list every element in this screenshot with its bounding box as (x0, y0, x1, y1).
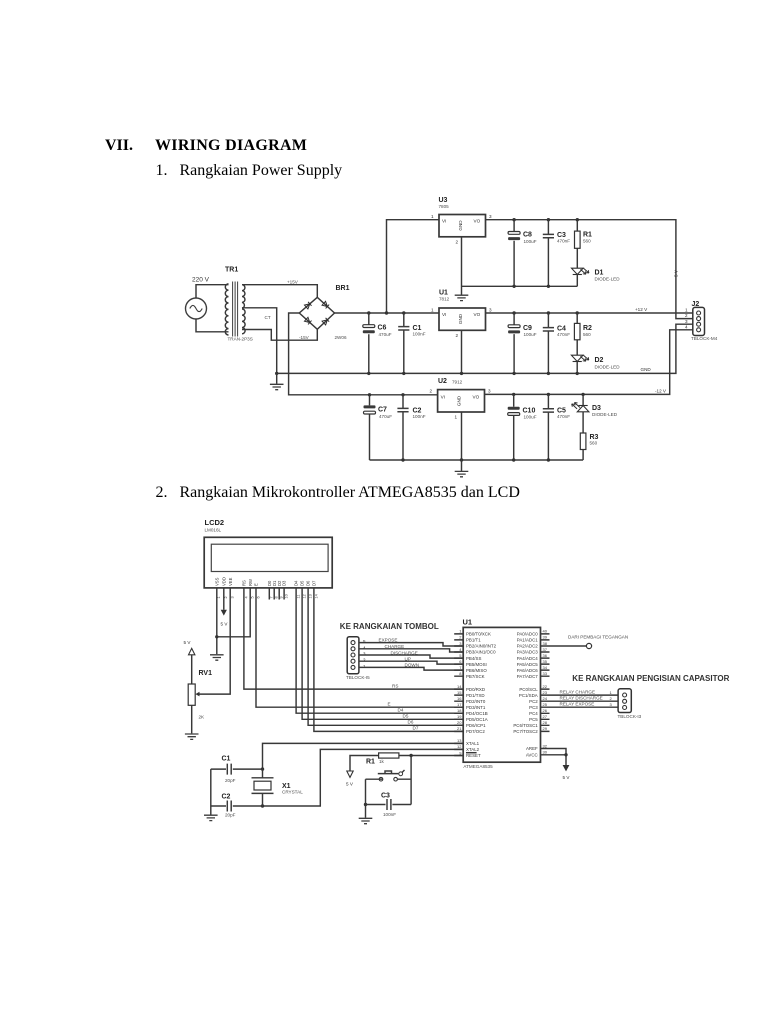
svg-text:PC7/TOSC2: PC7/TOSC2 (513, 729, 538, 734)
svg-text:VO: VO (473, 395, 480, 400)
junction RESET node (409, 754, 412, 757)
node DARI PEMBAGI TEGANGAN on PA2 (550, 635, 629, 649)
svg-text:2: 2 (224, 596, 228, 598)
svg-text:220 V: 220 V (192, 277, 210, 284)
wire button left to ground (365, 779, 367, 818)
svg-text:470uF: 470uF (379, 414, 392, 419)
svg-text:D7: D7 (312, 580, 317, 586)
svg-text:22: 22 (543, 684, 548, 689)
svg-text:RESET: RESET (466, 753, 481, 758)
svg-text:ATMEGA8535: ATMEGA8535 (463, 764, 493, 769)
svg-text:DOWN: DOWN (405, 663, 420, 668)
svg-text:39: 39 (543, 635, 548, 640)
junction crystal top (261, 767, 264, 770)
svg-text:D3: D3 (282, 580, 287, 586)
svg-text:1k: 1k (379, 759, 385, 764)
wire AREF AVCC to 5V (550, 749, 568, 766)
wire RW to VSS ground node (217, 600, 250, 637)
svg-text:PC3: PC3 (529, 705, 538, 710)
svg-text:PD4/OC1B: PD4/OC1B (466, 711, 488, 716)
svg-text:470nF: 470nF (557, 239, 570, 244)
capacitor C8 (508, 220, 537, 287)
svg-text:14: 14 (314, 594, 318, 598)
svg-text:D5: D5 (300, 580, 305, 586)
node dots -12V ground return (401, 458, 550, 461)
svg-text:CHARGE: CHARGE (385, 644, 405, 649)
svg-text:PC6/TOSC1: PC6/TOSC1 (513, 723, 538, 728)
svg-text:3: 3 (459, 641, 462, 646)
svg-text:C6: C6 (378, 325, 387, 332)
svg-text:D4: D4 (294, 580, 299, 586)
svg-text:34: 34 (543, 665, 548, 670)
svg-text:DIODE-LED: DIODE-LED (592, 412, 618, 417)
svg-text:5 V: 5 V (184, 640, 192, 645)
svg-text:PC5: PC5 (529, 717, 538, 722)
junction crystal bottom (261, 804, 264, 807)
svg-text:EXPOSE: EXPOSE (379, 638, 398, 643)
svg-text:DARI PEMBAGI TEGANGAN: DARI PEMBAGI TEGANGAN (568, 635, 628, 640)
svg-text:15: 15 (457, 690, 462, 695)
potentiometer RV1 (188, 670, 212, 733)
ground below centre tap (270, 373, 284, 389)
capacitor C4 (543, 313, 570, 373)
svg-text:PA6/ADC6: PA6/ADC6 (517, 668, 538, 673)
wire tombol UP (359, 656, 463, 664)
svg-text:35: 35 (543, 659, 548, 664)
ground below U2 (455, 471, 469, 476)
svg-text:PB5/MOSI: PB5/MOSI (466, 662, 487, 667)
ground rail to J2 pin3 (277, 324, 693, 373)
svg-text:100nF: 100nF (383, 812, 396, 817)
svg-text:R1: R1 (366, 759, 375, 766)
svg-text:+15V: +15V (287, 280, 299, 285)
svg-text:GND: GND (457, 395, 462, 406)
svg-text:LCD2: LCD2 (205, 518, 225, 527)
svg-text:PB3/AIN1/OC0: PB3/AIN1/OC0 (466, 650, 496, 655)
wire RESET net (350, 756, 463, 771)
svg-text:1: 1 (455, 415, 458, 420)
svg-text:RW: RW (248, 579, 253, 586)
svg-text:BR1: BR1 (336, 285, 350, 292)
svg-text:20pF: 20pF (225, 813, 236, 818)
svg-text:18: 18 (457, 708, 462, 713)
node dots -12V rail (368, 393, 585, 397)
svg-text:9: 9 (459, 750, 462, 755)
wire C1 C2 common to ground (210, 769, 212, 815)
svg-text:14: 14 (457, 684, 462, 689)
junction C3 left (364, 803, 367, 806)
capacitor C5 (543, 394, 570, 460)
svg-text:4: 4 (363, 645, 366, 650)
label KE RANGKAIAN TOMBOL (340, 622, 439, 631)
wire RELAY DISCHARGE (550, 696, 619, 702)
capacitor C3 (366, 793, 412, 818)
node dots 5V rail (512, 218, 579, 221)
svg-text:13: 13 (457, 738, 462, 743)
wire U3 GND pin (461, 237, 463, 295)
wire LCD E to ATMEGA (256, 600, 463, 708)
ground below VSS (210, 655, 224, 660)
svg-text:1: 1 (610, 690, 613, 695)
heading 1. Rangkaian Power Supply (156, 162, 343, 180)
svg-text:D6: D6 (408, 720, 414, 725)
svg-text:PB6/MISO: PB6/MISO (466, 668, 487, 673)
svg-text:TBLOCK-I3: TBLOCK-I3 (618, 714, 642, 719)
svg-text:40: 40 (543, 629, 548, 634)
pushbutton reset (366, 770, 412, 781)
svg-text:17: 17 (457, 702, 462, 707)
svg-text:29: 29 (543, 726, 548, 731)
svg-text:PD2/INT0: PD2/INT0 (466, 699, 486, 704)
wire 5V section ground return (462, 285, 578, 287)
schematic 2 : microcontroller + LCD (180, 510, 735, 840)
node dots 5V ground return (512, 285, 550, 288)
wire centre tap to ground (242, 308, 277, 374)
svg-text:28: 28 (543, 720, 548, 725)
wire secondary -15V to bridge (242, 329, 317, 340)
svg-text:GND: GND (641, 367, 652, 372)
wire secondary +15V to bridge (242, 280, 317, 298)
wire AC to transformer (196, 285, 229, 332)
wire XTAL1 to crystal (263, 743, 464, 769)
capacitor C9 (508, 313, 537, 373)
svg-text:E: E (388, 701, 391, 706)
svg-text:VEE: VEE (228, 577, 233, 586)
svg-text:100uF: 100uF (524, 415, 537, 420)
ground below RV1 (185, 734, 199, 739)
wire LCD D4 to ATMEGA (296, 600, 463, 714)
svg-text:2: 2 (456, 333, 459, 338)
svg-text:XTAL1: XTAL1 (466, 741, 480, 746)
svg-text:2: 2 (456, 240, 459, 245)
svg-text:VI: VI (441, 395, 445, 400)
svg-text:VSS: VSS (214, 577, 219, 586)
bridge rectifier BR1 (299, 285, 349, 340)
svg-text:CT: CT (265, 315, 271, 320)
svg-text:GND: GND (458, 220, 463, 231)
svg-text:9: 9 (280, 596, 284, 598)
transformer TR1 (225, 267, 271, 342)
svg-text:KE RANGKAIAN PENGISIAN CAPASIT: KE RANGKAIAN PENGISIAN CAPASITOR (572, 674, 729, 683)
svg-text:PD5/OC1A: PD5/OC1A (466, 717, 488, 722)
svg-text:RV1: RV1 (199, 670, 213, 677)
svg-text:3: 3 (231, 596, 235, 598)
crystal X1 (252, 769, 304, 806)
capacitor C3 (543, 220, 570, 287)
svg-text:PA7/ADC7: PA7/ADC7 (517, 674, 538, 679)
svg-text:3: 3 (489, 308, 492, 313)
svg-text:-12 V: -12 V (655, 389, 667, 394)
svg-text:24: 24 (543, 696, 548, 701)
svg-text:PC1/SDA: PC1/SDA (519, 693, 538, 698)
svg-text:5: 5 (251, 596, 255, 598)
svg-text:6: 6 (256, 596, 260, 598)
svg-text:CRYSTAL: CRYSTAL (282, 790, 303, 795)
capacitor C2 (397, 395, 425, 460)
svg-text:PD6/ICP1: PD6/ICP1 (466, 723, 486, 728)
svg-text:2: 2 (459, 635, 462, 640)
capacitor C2 (211, 794, 263, 818)
svg-text:TBLOCK-I5: TBLOCK-I5 (346, 675, 370, 680)
svg-text:PB1/T1: PB1/T1 (466, 638, 481, 643)
svg-text:PA0/ADC0: PA0/ADC0 (517, 632, 538, 637)
svg-text:C3: C3 (381, 793, 390, 800)
svg-text:TRAN-2P3S: TRAN-2P3S (228, 337, 253, 342)
svg-text:XTAL2: XTAL2 (466, 747, 480, 752)
resistor R3 (580, 412, 598, 460)
svg-text:12: 12 (457, 744, 462, 749)
svg-text:RS: RS (242, 580, 247, 586)
svg-text:30: 30 (543, 750, 548, 755)
svg-text:AREF: AREF (526, 746, 538, 751)
heading VII. WIRING DIAGRAM (105, 137, 133, 155)
svg-text:DIODE-LED: DIODE-LED (595, 277, 621, 282)
wire VEE to RV1 wiper (195, 600, 230, 697)
capacitor C6 (363, 313, 392, 373)
AC source 220V (186, 277, 210, 320)
svg-text:DIODE-LED: DIODE-LED (595, 365, 621, 370)
wire -12V section ground return (370, 459, 584, 461)
svg-text:470nF: 470nF (557, 332, 570, 337)
svg-text:C10: C10 (523, 408, 536, 415)
wire RELAY EXPOSE (550, 702, 619, 708)
power 5V arrow at R1 (346, 771, 354, 787)
svg-text:5: 5 (459, 653, 462, 658)
svg-text:2W06: 2W06 (335, 335, 347, 340)
svg-text:33: 33 (543, 671, 548, 676)
svg-text:38: 38 (543, 641, 548, 646)
svg-text:2: 2 (363, 658, 366, 663)
schematic 1 : power supply (180, 185, 725, 485)
svg-text:+12 V: +12 V (635, 307, 648, 312)
svg-text:2: 2 (685, 313, 688, 318)
svg-text:VO: VO (474, 312, 481, 317)
svg-text:PB4/SS: PB4/SS (466, 656, 481, 661)
regulator U1 7812 (431, 290, 492, 339)
svg-text:RS: RS (392, 683, 398, 688)
wire VSS to ground (216, 600, 218, 655)
svg-text:U1: U1 (439, 290, 448, 297)
svg-text:100nF: 100nF (413, 332, 426, 337)
svg-text:100nF: 100nF (413, 414, 426, 419)
wire U1 GND pin (461, 330, 463, 373)
resistor R2 (574, 313, 592, 355)
svg-text:8: 8 (459, 671, 462, 676)
svg-text:26: 26 (543, 708, 548, 713)
svg-text:PA5/ADC5: PA5/ADC5 (517, 662, 538, 667)
label KE RANGKAIAN PENGISIAN CAPASITOR (572, 674, 729, 683)
svg-text:D6: D6 (306, 580, 311, 586)
svg-text:D7: D7 (413, 726, 419, 731)
svg-text:PC2: PC2 (529, 699, 538, 704)
wire tombol EXPOSE (359, 638, 463, 646)
svg-text:PC0/SCL: PC0/SCL (519, 687, 538, 692)
wire XTAL2 to crystal (263, 749, 464, 806)
svg-text:1: 1 (685, 308, 688, 313)
svg-text:560: 560 (583, 239, 591, 244)
heading 2. Rangkaian Mikrokontroller ATMEGA8535 dan LCD (156, 484, 520, 502)
svg-text:470nF: 470nF (557, 414, 570, 419)
wire tombol CHARGE (359, 644, 463, 652)
wire U2 output -12V rail to J2 pin4 (485, 330, 693, 395)
svg-text:PA1/ADC1: PA1/ADC1 (517, 638, 538, 643)
svg-text:1: 1 (431, 308, 434, 313)
svg-text:6: 6 (459, 659, 462, 664)
svg-text:C2: C2 (222, 794, 231, 801)
junction VSS/RW (215, 635, 218, 638)
svg-text:23: 23 (543, 690, 548, 695)
ground below U3 (455, 295, 469, 300)
svg-text:D1: D1 (595, 270, 604, 277)
svg-text:R2: R2 (583, 325, 592, 332)
svg-text:-15V: -15V (299, 335, 310, 340)
svg-text:5 V: 5 V (221, 622, 229, 627)
wire bridge negative to U2 input (289, 313, 438, 395)
resistor R1 (575, 220, 593, 269)
svg-text:TR1: TR1 (225, 267, 238, 274)
svg-text:1: 1 (459, 629, 462, 634)
svg-text:4: 4 (459, 647, 462, 652)
svg-text:36: 36 (543, 653, 548, 658)
svg-text:3: 3 (363, 652, 366, 657)
svg-text:32: 32 (543, 743, 548, 748)
svg-text:12: 12 (303, 594, 307, 598)
svg-text:C1: C1 (222, 756, 231, 763)
svg-text:13: 13 (309, 594, 313, 598)
microcontroller U1 ATMEGA8535 (454, 618, 549, 770)
svg-text:PA2/ADC2: PA2/ADC2 (517, 644, 538, 649)
svg-text:20pF: 20pF (225, 778, 236, 783)
wire bridge positive rail (335, 312, 440, 314)
svg-text:2K: 2K (199, 715, 206, 720)
connector J2 (685, 301, 718, 341)
svg-text:PD1/TXD: PD1/TXD (466, 693, 485, 698)
LED D3 (572, 394, 618, 417)
svg-text:4: 4 (244, 596, 248, 598)
wire U2 GND pin (461, 412, 463, 471)
svg-text:VDD: VDD (221, 577, 226, 586)
svg-text:7805: 7805 (439, 204, 450, 209)
power 5V arrow at AVCC (563, 765, 571, 780)
wire U3 output 5V rail to J2 pin2 (486, 220, 693, 319)
svg-text:7912: 7912 (452, 380, 463, 385)
svg-text:4: 4 (685, 324, 688, 329)
svg-text:VI: VI (442, 312, 446, 317)
svg-text:21: 21 (457, 726, 462, 731)
svg-text:GND: GND (458, 313, 463, 324)
svg-text:PD7/OC2: PD7/OC2 (466, 729, 485, 734)
LED D1 (572, 268, 621, 286)
svg-text:PD0/RXD: PD0/RXD (466, 687, 485, 692)
svg-text:D5: D5 (403, 714, 409, 719)
LED D2 (571, 355, 620, 373)
svg-text:AVCC: AVCC (526, 753, 538, 758)
capacitor C10 (508, 394, 537, 460)
svg-text:11: 11 (297, 595, 301, 599)
svg-text:8: 8 (275, 596, 279, 598)
svg-text:1: 1 (431, 214, 434, 219)
svg-text:LM016L: LM016L (205, 528, 222, 533)
svg-text:VI: VI (442, 219, 446, 224)
svg-text:PB7/SCK: PB7/SCK (466, 674, 485, 679)
wire LCD D5 to ATMEGA (302, 600, 463, 720)
svg-text:3: 3 (685, 319, 688, 324)
svg-text:PA3/ADC3: PA3/ADC3 (517, 650, 538, 655)
svg-text:10: 10 (285, 594, 289, 598)
svg-text:5 V: 5 V (346, 782, 354, 787)
svg-text:U2: U2 (438, 378, 447, 385)
svg-text:PB2/AIN0/INT2: PB2/AIN0/INT2 (466, 644, 497, 649)
wire RELAY CHARGE (550, 690, 619, 696)
LCD display LCD2 LM016L (204, 518, 332, 588)
svg-text:PD3/INT1: PD3/INT1 (466, 705, 486, 710)
net label 5V (674, 269, 679, 277)
svg-text:C8: C8 (523, 232, 532, 239)
capacitor C1 (211, 756, 263, 784)
svg-text:2: 2 (430, 389, 433, 394)
connector TBLOCK-I3 (618, 689, 642, 719)
svg-text:1: 1 (217, 596, 221, 598)
svg-text:RELAY CHARGE: RELAY CHARGE (560, 690, 596, 695)
svg-text:RELAY EXPOSE: RELAY EXPOSE (560, 702, 595, 707)
svg-text:D2: D2 (595, 357, 604, 364)
svg-text:3: 3 (488, 389, 491, 394)
capacitor C7 (364, 395, 393, 460)
svg-text:37: 37 (543, 647, 548, 652)
svg-text:KE RANGKAIAN TOMBOL: KE RANGKAIAN TOMBOL (340, 622, 439, 631)
svg-text:RELAY DISCHARGE: RELAY DISCHARGE (560, 696, 603, 701)
svg-text:7: 7 (270, 596, 274, 598)
svg-text:U1: U1 (463, 618, 473, 627)
wire tombol DISCHARGE (359, 650, 463, 658)
svg-text:100uF: 100uF (524, 239, 537, 244)
svg-text:R1: R1 (583, 232, 592, 239)
regulator U3 7805 (431, 197, 492, 245)
svg-text:2: 2 (610, 696, 613, 701)
svg-text:PA4/ADC4: PA4/ADC4 (517, 656, 538, 661)
node dots ground rail (275, 372, 579, 375)
svg-text:E: E (254, 583, 259, 586)
ground below C1 C2 (204, 815, 218, 820)
svg-text:C9: C9 (523, 325, 532, 332)
svg-text:VO: VO (474, 219, 481, 224)
wire U1 output 12V rail to J2 pin1 (486, 307, 693, 313)
svg-text:5 V: 5 V (563, 775, 571, 780)
svg-text:25: 25 (543, 702, 548, 707)
svg-text:3: 3 (610, 702, 613, 707)
wire LCD D6 to ATMEGA (308, 600, 463, 726)
wire RESET node down (410, 756, 412, 805)
svg-text:U3: U3 (439, 197, 448, 204)
svg-text:100uF: 100uF (524, 332, 537, 337)
svg-text:5: 5 (363, 639, 366, 644)
svg-text:C7: C7 (378, 407, 387, 414)
svg-text:PB0/T0/XCK: PB0/T0/XCK (466, 632, 491, 637)
regulator U2 7912 (430, 378, 492, 420)
wire feed to U3 input (387, 220, 440, 313)
capacitor C1 (398, 313, 426, 373)
svg-text:16: 16 (457, 696, 462, 701)
svg-text:560: 560 (590, 441, 598, 446)
svg-text:UP: UP (405, 656, 411, 661)
connector J1 TBLOCK-I5 (346, 637, 370, 680)
svg-text:5 V: 5 V (674, 269, 679, 277)
wire LCD RS to ATMEGA (244, 600, 463, 690)
node dots 12V rail (512, 311, 579, 314)
svg-text:PC4: PC4 (529, 711, 538, 716)
svg-text:560: 560 (583, 332, 591, 337)
svg-text:20: 20 (457, 720, 462, 725)
